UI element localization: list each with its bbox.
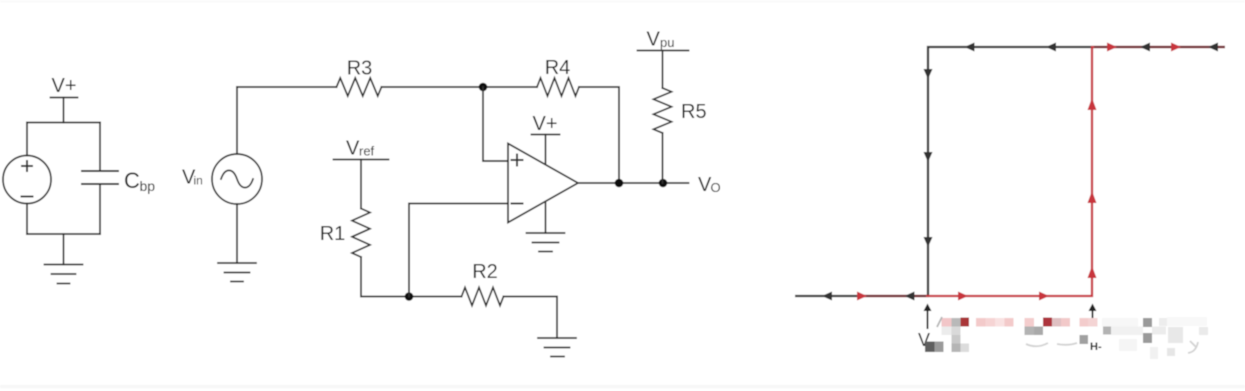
label VO	[698, 174, 721, 196]
wire source to bottom rail	[26, 204, 28, 235]
page divider line	[0, 385, 1245, 388]
wire rail to source	[26, 123, 28, 156]
supply rail V+ (op-amp)	[532, 135, 560, 165]
watermark mosaic band	[925, 317, 1208, 359]
resistor R4	[537, 78, 579, 96]
svg-text:ref: ref	[359, 144, 375, 159]
ground (op-amp)	[527, 233, 565, 252]
red arrow bottom 2	[958, 292, 968, 301]
resistor R2	[462, 288, 504, 306]
resistor R3	[337, 78, 382, 96]
svg-text:V+: V+	[532, 113, 557, 135]
svg-text:V: V	[647, 29, 661, 51]
svg-text:C: C	[124, 168, 140, 193]
svg-text:R3: R3	[347, 58, 373, 80]
svg-text:R5: R5	[681, 101, 707, 123]
black arrow top 2	[1046, 43, 1056, 52]
junction dot (feedback/output)	[615, 179, 624, 188]
label Cbp	[124, 168, 155, 194]
wire Vin to R3	[237, 86, 337, 88]
red arrow right-vert 1	[1088, 266, 1097, 278]
annotation arrow VL	[924, 304, 932, 330]
junction dot (R5/output)	[659, 179, 668, 188]
wire capacitor bottom lead	[99, 184, 101, 234]
svg-text:R2: R2	[472, 261, 498, 283]
wire op-amp to ground	[545, 203, 547, 233]
svg-text:R1: R1	[320, 223, 346, 245]
ground (bypass section)	[45, 265, 83, 284]
op-amp U1	[508, 144, 578, 223]
black curve (falling output path)	[795, 47, 1225, 296]
wire bottom of bypass loop	[27, 233, 100, 235]
svg-text:pu: pu	[660, 35, 674, 50]
svg-text:bp: bp	[140, 178, 156, 194]
capacitor Cbp	[82, 171, 118, 184]
wire top of bypass loop	[27, 122, 100, 124]
svg-text:O: O	[711, 180, 721, 195]
overlap dark core top	[1094, 46, 1225, 48]
wire Vin to top rail	[236, 87, 238, 154]
wire node A to op-amp +input	[483, 87, 508, 161]
wire R1 to node B	[361, 257, 462, 297]
label Vin	[182, 167, 203, 189]
red arrow top 2	[1171, 43, 1181, 52]
voltage source V+ supply (+/-)	[3, 156, 51, 204]
ground (Vin)	[218, 263, 256, 282]
red arrow right-vert 3	[1088, 98, 1097, 110]
wire Vin to ground	[236, 204, 238, 263]
red arrow top 1	[1107, 43, 1117, 52]
red arrow right-vert 2	[1088, 191, 1097, 203]
wire node B to op-amp -input	[409, 204, 508, 297]
black arrow left-vert 2	[924, 152, 933, 162]
black arrow top 3 (overlap)	[1140, 43, 1150, 52]
svg-text:V+: V+	[51, 75, 76, 97]
resistor R5	[654, 88, 672, 133]
annotation arrow VH	[1089, 304, 1097, 322]
svg-text:in: in	[194, 174, 203, 188]
wire capacitor top lead	[99, 123, 101, 172]
red arrow bottom 3	[1039, 292, 1049, 301]
red arrow bottom 1	[857, 292, 867, 301]
black arrow top 1	[965, 43, 975, 52]
wire R3 to R4 (through node A)	[382, 86, 538, 88]
resistor R1	[352, 209, 370, 258]
wire to ground (bypass)	[63, 234, 65, 265]
black arrow left-vert 3	[924, 237, 933, 247]
supply rail Vpu	[638, 51, 689, 89]
overlap dark core bottom	[860, 295, 926, 297]
label Vpu	[647, 29, 675, 51]
wire R5 to output	[662, 133, 664, 183]
black arrow top 4 (overlap)	[1208, 43, 1218, 52]
supply rail V+ (bypass section)	[51, 98, 78, 123]
node B junction dot	[405, 292, 414, 301]
wire R4 to output node	[579, 87, 619, 183]
ground (R2)	[538, 338, 576, 357]
wire op-amp output to VO	[578, 182, 689, 184]
black arrow bottom 2 (overlap)	[905, 292, 915, 301]
red curve (rising output path)	[857, 47, 1225, 296]
faint obscured glyph strokes	[937, 317, 1198, 353]
wire R2 to ground	[504, 297, 558, 339]
black arrow bottom 1	[822, 292, 832, 301]
label Vref	[346, 138, 375, 160]
black arrow left-vert 1	[924, 69, 933, 79]
node A junction dot	[479, 83, 488, 92]
svg-text:V: V	[346, 138, 360, 160]
source Vin (sine)	[212, 154, 262, 204]
svg-text:R4: R4	[545, 57, 571, 79]
svg-text:H‑: H‑	[1090, 341, 1102, 353]
supply rail Vref	[334, 160, 389, 209]
